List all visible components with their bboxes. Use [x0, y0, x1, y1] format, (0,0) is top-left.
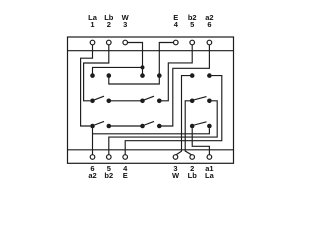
wire contact R1 left to bottom terminal 2 Lb [185, 101, 191, 155]
svg-text:a2: a2 [88, 171, 96, 180]
switch arm row2 left [95, 121, 105, 125]
contact row1 dot2 [107, 99, 112, 104]
wire node A5 to bottom terminal 3 W [176, 76, 190, 155]
svg-text:Lb: Lb [188, 171, 198, 180]
terminal 5 b2 top [190, 40, 195, 45]
wire row1 mid link [109, 100, 143, 102]
wire contact R2 left to bottom terminal 1 a1 [192, 128, 209, 155]
contact row1 dot4 [157, 99, 162, 104]
svg-text:2: 2 [107, 20, 111, 29]
terminal 3 W bottom [173, 155, 178, 160]
terminal 6 a2 top [207, 40, 212, 45]
node A5 [190, 73, 195, 78]
wire E terminal4 to node A4 [159, 43, 173, 76]
wire node A4 to node A2 [109, 76, 160, 84]
node A3 [140, 73, 145, 78]
contact R1 right [207, 99, 212, 104]
wire Lb terminal2 to contact row1 left [84, 45, 109, 101]
wire contact R2 right to bottom strip junction [93, 128, 210, 134]
node A4 [157, 73, 162, 78]
node A6 [207, 73, 212, 78]
outer box [68, 37, 234, 163]
contact row2 dot4 [157, 124, 162, 129]
contact row2 dot1 [90, 124, 95, 129]
svg-text:5: 5 [190, 20, 194, 29]
svg-text:La: La [205, 171, 215, 180]
contact row1 dot1 [90, 99, 95, 104]
terminal 2 Lb bottom [190, 155, 195, 160]
svg-text:3: 3 [123, 20, 127, 29]
svg-text:6: 6 [207, 20, 211, 29]
node A1 [90, 73, 95, 78]
switch arm row1 right [145, 96, 155, 100]
contact R2 right [207, 124, 212, 129]
switch arm row2 right [145, 121, 155, 125]
wire contact row2 dot1 to bottom terminal 6 a2 [92, 126, 94, 155]
terminal 1 La top [90, 40, 95, 45]
terminal 4 E bottom [123, 155, 128, 160]
bottom terminal strip separator [68, 149, 234, 151]
terminal 3 W top [123, 40, 128, 45]
terminal 6 a2 bottom [90, 155, 95, 160]
contact row2 dot3 [140, 124, 145, 129]
terminal 4 E top [174, 40, 179, 45]
wire row2 mid link [109, 125, 143, 127]
wire contact R1 right to bottom terminal 5 b2 [109, 101, 217, 155]
svg-text:b2: b2 [104, 171, 113, 180]
wire b2 terminal5 to contact row1 right [162, 45, 193, 101]
junction W node [141, 65, 145, 69]
terminal 2 Lb top [107, 40, 112, 45]
svg-text:W: W [172, 171, 180, 180]
switch arm R2 [194, 122, 206, 125]
svg-text:1: 1 [90, 20, 94, 29]
top terminal strip separator [68, 50, 234, 52]
switch arm row1 left [95, 96, 105, 100]
terminal 1 a1 La bottom [207, 155, 212, 160]
wire La terminal1 to contact row2 left [81, 45, 93, 126]
switch arm R1 [194, 97, 206, 100]
wire a2 terminal6 to contact row2 right [162, 45, 210, 126]
contact row1 dot3 [140, 99, 145, 104]
wire node A6 to bottom terminal 4 E [125, 76, 222, 155]
wire W junction branch to node A1 [93, 67, 143, 75]
terminal 5 b2 bottom [107, 155, 112, 160]
wire W terminal3 to node A3 [128, 43, 143, 76]
node A2 [107, 73, 112, 78]
svg-text:E: E [123, 171, 128, 180]
contact R1 left [190, 99, 195, 104]
contact row2 dot2 [107, 124, 112, 129]
contact R2 left [190, 124, 195, 129]
